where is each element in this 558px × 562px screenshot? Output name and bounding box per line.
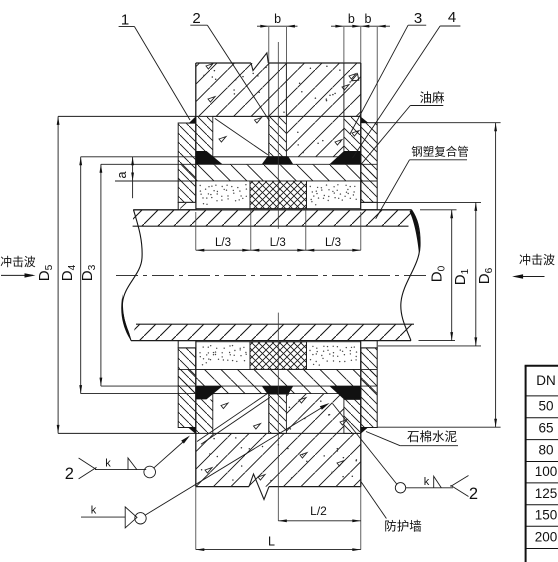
svg-text:k: k — [91, 505, 97, 517]
weld seam lower middle ring — [262, 386, 293, 394]
oakum packing lower right (dotted) — [307, 342, 361, 370]
svg-text:冲击波: 冲击波 — [0, 255, 36, 269]
svg-text:钢塑复合管: 钢塑复合管 — [411, 145, 469, 159]
sleeve outer surface line lower — [81, 393, 361, 395]
pipe left break curve with thickened ink — [122, 210, 142, 341]
wall bottom edge with break zigzag — [196, 486, 249, 488]
baffle plate upper left — [178, 123, 196, 202]
aggregate marks inside sleeve boxes — [219, 118, 262, 429]
svg-text:2: 2 — [469, 485, 478, 503]
svg-text:防护墙: 防护墙 — [384, 519, 422, 534]
svg-text:b: b — [365, 12, 372, 26]
svg-text:100: 100 — [535, 464, 558, 479]
svg-text:冲击波: 冲击波 — [519, 252, 555, 267]
dimension D5 — [57, 116, 59, 433]
baffle plate lower right — [361, 341, 377, 348]
svg-text:2: 2 — [65, 465, 74, 483]
weld fillet upper-right plate corner — [361, 117, 369, 123]
svg-text:2: 2 — [192, 10, 200, 27]
svg-text:b: b — [274, 12, 281, 26]
svg-text:65: 65 — [538, 420, 553, 435]
weld seam upper middle ring — [262, 156, 293, 164]
wall: lower concrete pocket right of middle ring — [286, 394, 344, 434]
svg-text:150: 150 — [535, 507, 558, 522]
wall left face — [195, 63, 197, 210]
vertical centerline of assembly — [277, 42, 279, 229]
sleeve bore line lower (packing bottom) — [178, 368, 377, 370]
concrete aggregate dots — [201, 66, 357, 482]
pipe horizontal centerline (dash-dot) — [116, 274, 428, 276]
dimension L/3 chain — [195, 212, 197, 250]
dimension D6 (baffle plate OD) — [377, 122, 500, 124]
across line upper (D5 level) — [58, 115, 361, 117]
weld seam lower left — [196, 386, 223, 399]
svg-text:200: 200 — [535, 529, 558, 544]
svg-text:L/3: L/3 — [270, 237, 286, 249]
sleeve end collar upper-left (steel) — [196, 116, 213, 151]
weld fillet upper-left plate corner — [188, 116, 196, 123]
svg-text:k: k — [424, 476, 430, 488]
DN table — [525, 366, 558, 562]
svg-text:L/2: L/2 — [310, 504, 327, 518]
oakum packing upper left (dotted) — [196, 181, 250, 209]
svg-text:DN: DN — [536, 373, 556, 388]
svg-text:b: b — [348, 12, 355, 26]
oakum packing lower left (dotted) — [196, 342, 250, 370]
DN table texts — [535, 373, 558, 545]
sleeve pipe wall band lower (hatched) — [178, 369, 377, 393]
dimension b b (right ring and plate widths) — [331, 25, 390, 27]
weld fillet lower-right plate corner — [361, 427, 369, 434]
dimension D3 — [100, 164, 102, 386]
dimension L/2 — [277, 487, 279, 521]
wall right face — [360, 63, 362, 210]
weld symbol k-2 (right) — [395, 483, 405, 493]
dimension a (sleeve wall) — [132, 157, 134, 181]
svg-text:50: 50 — [538, 399, 553, 414]
dimension D0 (pipe OD) — [420, 209, 457, 211]
svg-text:L/3: L/3 — [325, 237, 341, 249]
steel-plastic pipe upper wall band — [133, 210, 412, 226]
svg-text:3: 3 — [414, 10, 422, 27]
svg-text:油麻: 油麻 — [419, 90, 445, 105]
weld seam upper right ring — [330, 151, 361, 164]
svg-text:a: a — [115, 171, 129, 178]
sleeve outer surface line upper — [81, 156, 361, 158]
pipe right break curve with thickened ink — [401, 210, 420, 341]
weld seam lower right ring — [330, 386, 361, 399]
sleeve section box lower — [213, 394, 269, 434]
steel-plastic pipe lower wall band — [131, 324, 414, 340]
baffle plate upper right — [361, 123, 377, 203]
across line lower (D5 level) — [58, 432, 361, 434]
svg-text:k: k — [105, 458, 111, 470]
wall top edge with break zigzag — [196, 62, 251, 64]
dimension D4 — [80, 157, 82, 394]
svg-text:石棉水泥: 石棉水泥 — [407, 430, 457, 444]
dimension D1 (plate hole) — [361, 201, 481, 203]
sleeve bore line upper (packing top) — [115, 180, 377, 182]
wall: upper concrete pocket right of middle ring — [286, 116, 344, 156]
asbestos cement block lower (crosshatch) — [250, 342, 307, 370]
oakum packing upper right (dotted) — [307, 181, 361, 209]
sleeve inner line lower (D3 level) — [101, 385, 377, 387]
asbestos cement block upper (crosshatch) — [250, 181, 307, 209]
weld seam upper left (sleeve to collar) — [196, 151, 223, 164]
dimension b (middle ring width) — [257, 25, 298, 27]
inner flange ring lower right — [344, 399, 361, 433]
sleeve end collar lower-left (steel) — [196, 399, 213, 433]
svg-text:L/3: L/3 — [215, 237, 231, 249]
svg-text:1: 1 — [121, 12, 129, 29]
sleeve section box upper — [213, 116, 269, 156]
wall: upper concrete block — [196, 63, 361, 116]
wall: lower concrete block — [196, 433, 361, 486]
dimension L — [195, 487, 197, 550]
svg-text:80: 80 — [538, 442, 553, 457]
weld symbol k lower (left) — [81, 516, 125, 518]
middle flange ring lower — [269, 394, 287, 433]
sleeve inner line upper (D3 level) — [101, 163, 377, 165]
concrete aggregate triangles — [205, 64, 359, 480]
svg-text:125: 125 — [535, 486, 558, 501]
svg-text:4: 4 — [448, 9, 456, 26]
svg-text:L: L — [268, 535, 275, 549]
weld fillet lower-left plate corner — [188, 427, 196, 434]
sleeve pipe wall band upper (hatched) — [178, 164, 377, 181]
inner flange ring upper right — [344, 116, 361, 152]
b-dim extension lines above wall — [268, 27, 270, 63]
baffle plate lower left — [178, 341, 196, 348]
middle flange ring upper — [269, 116, 287, 156]
